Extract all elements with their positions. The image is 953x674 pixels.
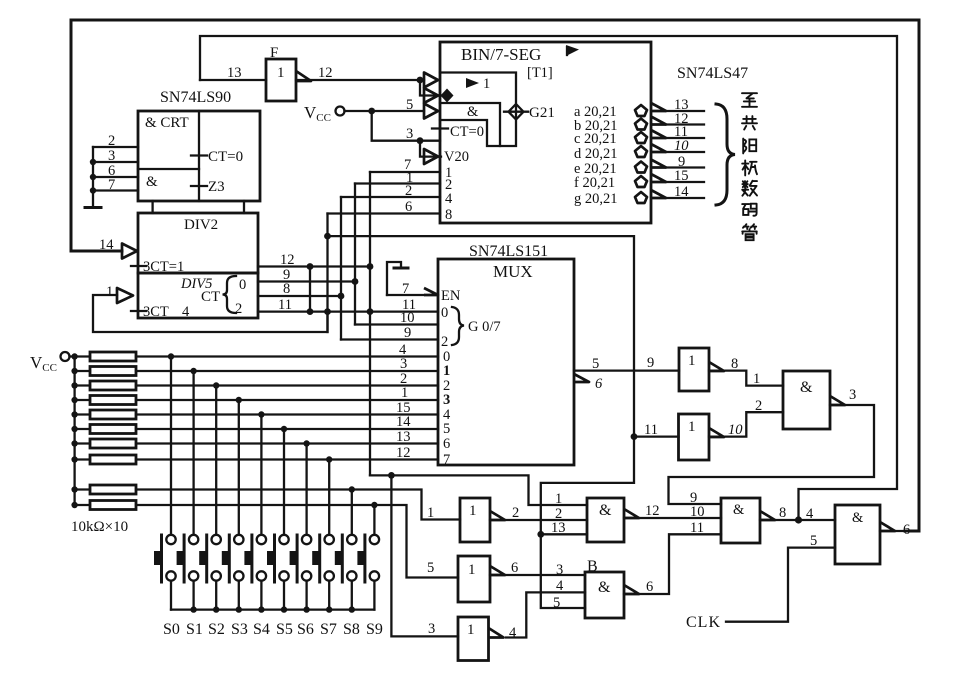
svg-text:3: 3 bbox=[400, 356, 407, 372]
node bbox=[367, 263, 374, 270]
svg-text:0: 0 bbox=[441, 305, 448, 321]
node bbox=[795, 516, 802, 523]
svg-text:15: 15 bbox=[674, 168, 689, 184]
svg-text:2: 2 bbox=[235, 301, 242, 317]
3CT=1 tick bbox=[131, 265, 146, 267]
svg-text:&: & bbox=[800, 379, 813, 396]
svg-text:SN74LS151: SN74LS151 bbox=[469, 243, 548, 260]
G21 diamond bbox=[504, 104, 528, 120]
svg-text:&: & bbox=[733, 502, 745, 518]
wire F output 12 to BIN pin 4 bbox=[296, 79, 424, 81]
svg-text:S4: S4 bbox=[253, 621, 270, 638]
svg-text:3: 3 bbox=[428, 621, 435, 637]
Vcc terminal circle bbox=[336, 107, 345, 116]
nand gate F box bbox=[783, 371, 830, 429]
wire output 6 to gate B pin 3 bbox=[490, 574, 585, 576]
wire output 6 to right loop bbox=[880, 530, 919, 532]
switch S0 bbox=[154, 357, 176, 610]
nand gate B box bbox=[585, 572, 624, 618]
svg-text:2: 2 bbox=[405, 183, 412, 199]
svg-text:1: 1 bbox=[277, 65, 285, 81]
resistor R2 row bbox=[71, 367, 438, 376]
node bbox=[537, 531, 544, 538]
svg-text:Z3: Z3 bbox=[208, 179, 225, 195]
svg-text:1: 1 bbox=[555, 491, 562, 507]
resistor R9 row bbox=[71, 485, 460, 520]
svg-text:SN74LS90: SN74LS90 bbox=[160, 89, 231, 106]
chinese char 码 bbox=[742, 204, 756, 216]
wire output 8 to gate F pin 1 bbox=[709, 371, 783, 386]
resistor R7 row bbox=[71, 439, 438, 448]
chinese char 极 bbox=[742, 160, 757, 175]
counter U1 DIV2 box bbox=[138, 213, 258, 273]
svg-text:1: 1 bbox=[401, 385, 408, 401]
internal outline OR section bbox=[440, 73, 516, 147]
svg-text:S0: S0 bbox=[163, 621, 180, 638]
EN ground hook bbox=[387, 262, 401, 295]
nand gate U6A box bbox=[587, 498, 624, 542]
wire Vcc to bus bbox=[70, 355, 91, 357]
wire input 11 bbox=[634, 435, 679, 437]
wire input 3 from QD column bbox=[391, 475, 458, 636]
brace left bbox=[223, 276, 237, 313]
CT=0 tick bbox=[191, 154, 207, 156]
svg-text:3: 3 bbox=[406, 126, 413, 142]
input wedge pin 4 bbox=[424, 73, 438, 88]
svg-text:11: 11 bbox=[278, 297, 292, 313]
vertical bus C to BIN input 2 bbox=[354, 184, 356, 325]
svg-text:SN74LS47: SN74LS47 bbox=[677, 65, 748, 82]
wire EN pin 7 bbox=[387, 294, 424, 296]
vertical link QA row bbox=[309, 267, 311, 312]
internal divider horizontal bbox=[138, 168, 199, 170]
wire output 2 to gate bbox=[490, 519, 587, 521]
select brace bbox=[452, 307, 464, 345]
CT=0 tick bbox=[432, 127, 448, 129]
wire pin 6 bbox=[93, 176, 138, 178]
wire QD net under BIN down to gates bbox=[328, 236, 635, 608]
svg-text:1: 1 bbox=[443, 363, 450, 379]
svg-text:&: & bbox=[852, 510, 864, 526]
svg-text:12: 12 bbox=[280, 252, 295, 268]
switch S4 bbox=[244, 415, 266, 610]
svg-text:2: 2 bbox=[755, 398, 762, 414]
svg-text:4: 4 bbox=[556, 578, 564, 594]
svg-text:4: 4 bbox=[182, 304, 190, 320]
svg-text:S7: S7 bbox=[320, 621, 337, 638]
svg-text:6: 6 bbox=[511, 560, 518, 576]
svg-text:6: 6 bbox=[595, 376, 603, 392]
wire CLK to gate F2 pin 5 bbox=[726, 548, 835, 622]
switch S6 bbox=[290, 444, 312, 610]
output wedge bbox=[489, 628, 504, 638]
mux U3 box bbox=[438, 259, 574, 465]
svg-text:5: 5 bbox=[427, 560, 434, 576]
clock wedge pin 14 bbox=[122, 244, 137, 259]
output wedge bbox=[624, 509, 639, 518]
switch S5 bbox=[267, 429, 289, 610]
output wedge bbox=[709, 362, 724, 371]
output wedge bbox=[490, 566, 505, 575]
node at pin4 branch bbox=[417, 77, 424, 84]
svg-text:S9: S9 bbox=[366, 621, 383, 638]
svg-text:[T1]: [T1] bbox=[527, 65, 553, 81]
switch common bus bbox=[171, 608, 374, 610]
connector wires between counter sections bbox=[151, 201, 153, 213]
svg-text:14: 14 bbox=[674, 184, 689, 200]
svg-text:8: 8 bbox=[283, 281, 290, 297]
svg-text:S5: S5 bbox=[276, 621, 293, 638]
svg-text:8: 8 bbox=[731, 356, 738, 372]
resistor R10 row bbox=[71, 501, 458, 578]
output wedge bbox=[490, 511, 505, 520]
output wedge bbox=[880, 522, 895, 531]
inverter U4C box bbox=[458, 617, 489, 661]
wire QC output 8 bbox=[258, 295, 341, 297]
node bbox=[324, 308, 331, 315]
svg-text:3CT: 3CT bbox=[143, 304, 169, 320]
wire pin 4 from inverter E bbox=[506, 592, 585, 637]
switch S9 bbox=[357, 505, 379, 610]
node bbox=[367, 308, 374, 315]
chinese char 数 bbox=[742, 181, 757, 196]
polarity diamond bbox=[441, 89, 454, 103]
svg-text:f 20,21: f 20,21 bbox=[574, 175, 615, 191]
svg-text:CT=0: CT=0 bbox=[208, 149, 243, 165]
svg-text:g 20,21: g 20,21 bbox=[574, 191, 618, 207]
resistor R3 row bbox=[71, 381, 438, 390]
output row f bbox=[574, 168, 704, 191]
wire BIN input 1 bbox=[370, 171, 440, 173]
svg-text:14: 14 bbox=[396, 414, 411, 430]
svg-text:S6: S6 bbox=[297, 621, 314, 638]
svg-text:10: 10 bbox=[400, 310, 415, 326]
wire output 10 to gate F pin 2 bbox=[709, 412, 783, 436]
svg-text:1: 1 bbox=[468, 562, 476, 578]
Vcc bus vertical bbox=[73, 357, 75, 506]
svg-text:1: 1 bbox=[427, 505, 434, 521]
wire Vcc to BIN pin 5 bbox=[345, 110, 425, 112]
node bbox=[368, 108, 375, 115]
wire pin 1 with feedback bbox=[93, 295, 328, 332]
wire QA output 12 bbox=[258, 265, 370, 267]
svg-text:3: 3 bbox=[849, 387, 856, 403]
vertical bus D to BIN input 1 bbox=[369, 172, 371, 475]
resistor R4 row bbox=[71, 396, 438, 405]
svg-text:3: 3 bbox=[556, 562, 563, 578]
Z3 tick bbox=[191, 185, 207, 187]
switch S7 bbox=[312, 460, 334, 610]
node bbox=[90, 159, 96, 165]
svg-text:8: 8 bbox=[445, 207, 452, 223]
ground bar bbox=[394, 267, 408, 270]
inverter U4A box bbox=[460, 498, 490, 542]
wire output 8 to gate F2 pin 4 bbox=[760, 519, 835, 521]
chinese char 共 bbox=[742, 116, 757, 129]
node bbox=[352, 278, 359, 285]
resistor R8 row bbox=[71, 455, 438, 464]
svg-text:7: 7 bbox=[443, 452, 450, 468]
output wedge bbox=[624, 585, 639, 594]
svg-text:14: 14 bbox=[99, 237, 114, 253]
svg-text:d 20,21: d 20,21 bbox=[574, 146, 618, 162]
wire pin 3 bbox=[93, 161, 138, 163]
svg-text:1: 1 bbox=[688, 419, 696, 435]
input bus vertical bbox=[92, 147, 94, 206]
svg-text:8: 8 bbox=[779, 505, 786, 521]
inverter U4B box bbox=[458, 556, 490, 602]
chinese char 管 bbox=[742, 224, 757, 240]
input wedge pin 5 bbox=[424, 104, 438, 119]
svg-text:6: 6 bbox=[443, 436, 450, 452]
svg-text:CT: CT bbox=[201, 289, 220, 305]
svg-text:5: 5 bbox=[810, 533, 817, 549]
svg-text:BIN/7-SEG: BIN/7-SEG bbox=[461, 45, 541, 64]
output row b bbox=[574, 111, 704, 134]
node bbox=[388, 472, 395, 479]
output wedge bbox=[830, 396, 845, 405]
wire output 6 up to gate E pin 11 bbox=[624, 534, 721, 594]
big brace bbox=[716, 104, 735, 205]
svg-text:V20: V20 bbox=[444, 149, 469, 165]
resistor R5 row bbox=[71, 410, 438, 419]
node bbox=[338, 293, 345, 300]
wire output 3 loop to gate E pin 9 bbox=[669, 405, 875, 504]
svg-text:9: 9 bbox=[647, 355, 654, 371]
output wedge bbox=[760, 511, 775, 520]
Vcc terminal circle bbox=[61, 352, 70, 361]
top arrow mark bbox=[566, 45, 579, 56]
svg-text:11: 11 bbox=[690, 520, 704, 536]
svg-text:S2: S2 bbox=[208, 621, 225, 638]
wire loop from gate output 6 around top to counter pin 14 bbox=[71, 20, 919, 531]
svg-text:2: 2 bbox=[512, 505, 519, 521]
svg-text:1: 1 bbox=[469, 503, 477, 519]
output row d bbox=[574, 138, 704, 162]
output row c bbox=[574, 124, 704, 147]
inverter U7B (D) box bbox=[679, 414, 710, 460]
internal line AND section bbox=[440, 103, 500, 146]
svg-text:B: B bbox=[587, 558, 598, 575]
node bbox=[90, 187, 96, 193]
inverter U5 (F) box bbox=[266, 59, 296, 101]
svg-text:13: 13 bbox=[227, 65, 242, 81]
vertical bus B to BIN input 4 bbox=[340, 197, 342, 340]
svg-text:5: 5 bbox=[553, 595, 560, 611]
node bbox=[324, 233, 331, 240]
svg-text:1: 1 bbox=[106, 284, 113, 300]
wire BIN input 4 bbox=[341, 196, 440, 198]
svg-text:S3: S3 bbox=[231, 621, 248, 638]
node bbox=[417, 137, 424, 144]
svg-text:4: 4 bbox=[445, 191, 453, 207]
svg-text:DIV2: DIV2 bbox=[184, 217, 218, 233]
node bbox=[90, 174, 96, 180]
wire pin 14 from left loop bbox=[71, 250, 122, 252]
output row g bbox=[574, 184, 704, 207]
svg-text:& CRT: & CRT bbox=[145, 115, 189, 131]
branch wire to diamond input bbox=[420, 80, 441, 96]
nand gate E box bbox=[721, 498, 760, 543]
svg-text:12: 12 bbox=[318, 65, 333, 81]
ground bbox=[85, 206, 101, 209]
svg-text:0: 0 bbox=[239, 277, 246, 293]
EN wedge bbox=[424, 288, 438, 295]
switch S3 bbox=[222, 400, 244, 610]
svg-text:&: & bbox=[599, 502, 612, 519]
svg-text:5: 5 bbox=[592, 356, 599, 372]
inverter U7A (C) box bbox=[679, 348, 709, 391]
svg-text:3: 3 bbox=[108, 148, 115, 164]
svg-text:EN: EN bbox=[441, 288, 461, 304]
wire pin 7 bbox=[93, 189, 138, 191]
svg-text:4: 4 bbox=[509, 625, 517, 641]
svg-text:CLK: CLK bbox=[686, 614, 721, 631]
input wedge V20 bbox=[424, 149, 438, 164]
svg-text:4: 4 bbox=[806, 506, 814, 522]
svg-text:F: F bbox=[270, 45, 278, 61]
svg-text:c 20,21: c 20,21 bbox=[574, 131, 617, 147]
wire select S2 to MUX pin 9 bbox=[341, 338, 438, 340]
svg-text:CT=0: CT=0 bbox=[450, 124, 484, 140]
svg-text:6: 6 bbox=[903, 522, 910, 538]
clock wedge pin 1 bbox=[117, 288, 133, 303]
svg-text:S8: S8 bbox=[343, 621, 360, 638]
counter U1 DIV5 box bbox=[138, 273, 258, 318]
svg-text:3: 3 bbox=[443, 392, 450, 408]
svg-text:1: 1 bbox=[753, 371, 760, 387]
mux output Y pin 5 wire to inverter bbox=[574, 369, 679, 371]
wire pin 13 into F bbox=[200, 79, 266, 81]
wire branch to V20 wedge bbox=[420, 141, 441, 157]
wire QD output 11 to MUX pin 0 bbox=[258, 310, 438, 312]
nodes on bus bbox=[190, 606, 196, 612]
svg-text:MUX: MUX bbox=[493, 262, 533, 281]
node bbox=[631, 433, 638, 440]
output row e bbox=[574, 154, 704, 177]
inverter F output wedge bbox=[296, 71, 311, 81]
wire loop from top y36 down right side to AND gate node bbox=[200, 36, 897, 519]
chinese char 至 bbox=[742, 93, 757, 107]
svg-text:6: 6 bbox=[646, 579, 653, 595]
svg-text:&: & bbox=[467, 104, 479, 120]
svg-text:7: 7 bbox=[108, 177, 115, 193]
svg-text:1: 1 bbox=[688, 353, 696, 369]
switch S2 bbox=[199, 386, 221, 610]
wire QD lower branch bbox=[370, 475, 587, 505]
svg-text:12: 12 bbox=[645, 503, 660, 519]
svg-text:5: 5 bbox=[443, 421, 450, 437]
wire select S1 to MUX pin 10 bbox=[355, 323, 438, 325]
resistor R1 row bbox=[90, 352, 438, 361]
svg-text:10: 10 bbox=[674, 138, 689, 154]
wire BIN input 8 bbox=[328, 212, 441, 214]
switch S1 bbox=[177, 371, 199, 610]
resistor R6 row bbox=[71, 425, 438, 434]
svg-text:11: 11 bbox=[644, 422, 658, 438]
wire QB output 9 bbox=[258, 280, 355, 282]
svg-text:10: 10 bbox=[690, 504, 705, 520]
output wedge bbox=[709, 428, 724, 437]
svg-text:10kΩ×10: 10kΩ×10 bbox=[71, 519, 128, 535]
decoder U2 box bbox=[440, 42, 651, 223]
node bbox=[71, 353, 77, 359]
counter U1 upper box bbox=[138, 111, 260, 201]
svg-text:13: 13 bbox=[551, 520, 566, 536]
switch S8 bbox=[335, 490, 357, 610]
input wedge diamond row bbox=[424, 88, 438, 103]
svg-text:G21: G21 bbox=[529, 105, 555, 121]
svg-text:10: 10 bbox=[728, 422, 743, 438]
svg-text:2: 2 bbox=[441, 334, 448, 350]
svg-text:G 0/7: G 0/7 bbox=[468, 319, 501, 335]
node bbox=[307, 308, 314, 315]
symbol arrow 1 bbox=[466, 78, 479, 88]
svg-text:1: 1 bbox=[467, 622, 475, 638]
svg-text:9: 9 bbox=[404, 325, 411, 341]
svg-text:2: 2 bbox=[108, 133, 115, 149]
wire output 12 to gate E bbox=[624, 517, 721, 519]
wire Vcc branch to BIN pin 3 bbox=[372, 111, 440, 141]
vertical bus A to BIN input 8 bbox=[326, 214, 328, 333]
node bbox=[307, 263, 314, 270]
svg-text:S1: S1 bbox=[186, 621, 203, 638]
nand gate F2 box bbox=[835, 505, 880, 564]
svg-text:6: 6 bbox=[405, 199, 412, 215]
wire pin 2 bbox=[93, 146, 138, 148]
output row a bbox=[574, 97, 704, 120]
svg-text:&: & bbox=[598, 579, 611, 596]
svg-text:5: 5 bbox=[406, 97, 413, 113]
svg-text:1: 1 bbox=[483, 76, 490, 92]
wire pin 13 bbox=[541, 533, 587, 535]
svg-text:7: 7 bbox=[402, 281, 409, 297]
svg-text:&: & bbox=[146, 174, 158, 190]
internal divider vertical bbox=[198, 111, 200, 201]
wire BIN input 2 bbox=[355, 182, 440, 184]
mux output W wedge pin 6 bbox=[574, 374, 589, 382]
chinese char 阳 bbox=[743, 139, 756, 154]
3CT 4 tick bbox=[131, 310, 146, 312]
